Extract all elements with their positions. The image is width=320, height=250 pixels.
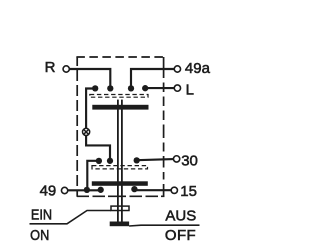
svg-text:R: R [45,59,56,76]
svg-text:ON: ON [30,226,49,243]
svg-text:OFF: OFF [165,227,196,244]
svg-text:49a: 49a [185,60,211,77]
svg-text:AUS: AUS [165,208,196,225]
svg-text:15: 15 [180,183,197,200]
svg-text:L: L [186,81,194,98]
svg-text:30: 30 [181,152,198,169]
svg-text:EIN: EIN [31,206,52,223]
svg-text:49: 49 [40,183,57,200]
